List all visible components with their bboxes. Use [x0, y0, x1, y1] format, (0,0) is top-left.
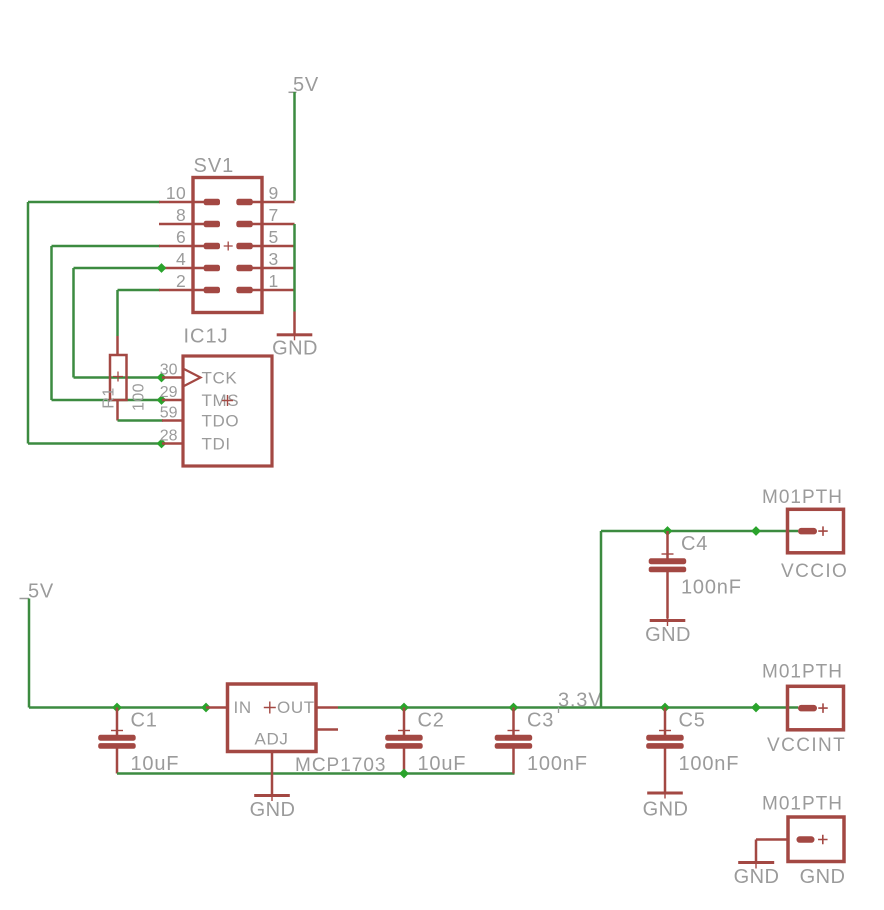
- svg-text:C2: C2: [418, 710, 445, 732]
- svg-text:3.3V: 3.3V: [558, 690, 602, 712]
- svg-text:GND: GND: [645, 624, 691, 646]
- svg-text:9: 9: [269, 183, 279, 203]
- label GND of J3 wire: [734, 866, 780, 888]
- regulator IC2 IN pin: [206, 706, 228, 709]
- capacitor C2 origin cross: [398, 730, 410, 731]
- supply 5V (lower): [20, 581, 55, 603]
- svg-text:100nF: 100nF: [681, 577, 742, 599]
- label C4: [681, 533, 708, 555]
- label M01PTH of J3: [762, 794, 843, 815]
- ic IC1J body: [183, 356, 272, 466]
- resistor R1 origin cross: [113, 372, 123, 382]
- pin 5 of SV1: [236, 227, 294, 249]
- wire J3 pin to GND: [755, 838, 788, 861]
- connector J3 pad: [797, 836, 815, 843]
- connector J3 origin cross: [818, 835, 828, 845]
- svg-text:GND: GND: [250, 799, 296, 821]
- label ADJ: [255, 729, 289, 748]
- pin 29 TMS of IC1J: [160, 384, 239, 410]
- svg-text:2: 2: [176, 271, 186, 291]
- junction at C3: [509, 703, 519, 713]
- svg-text:100nF: 100nF: [679, 753, 740, 775]
- label M01PTH of VCCINT: [762, 662, 843, 683]
- label C4 value: [681, 577, 742, 599]
- svg-text:C5: C5: [679, 710, 706, 732]
- label C5: [679, 710, 706, 732]
- wire 5V to regulator IN: [28, 599, 206, 709]
- label net 3.3V: [558, 690, 602, 714]
- svg-text:28: 28: [160, 428, 178, 445]
- svg-text:VCCINT: VCCINT: [767, 735, 846, 756]
- label VCCIO: [781, 561, 848, 582]
- connector VCCIO M01PTH: [788, 509, 844, 553]
- capacitor C3 plates: [495, 735, 533, 749]
- svg-text:VCCIO: VCCIO: [781, 561, 848, 582]
- ground GND of SV1: [277, 330, 313, 340]
- capacitor C3 top pin: [512, 708, 515, 736]
- svg-text:ADJ: ADJ: [255, 729, 289, 748]
- label GND of regulator ADJ text: [250, 799, 296, 821]
- capacitor C5 bottom pin: [664, 748, 667, 791]
- label C1 value: [131, 753, 180, 775]
- resistor R1 bottom pin: [116, 400, 119, 421]
- svg-text:MCP1703: MCP1703: [295, 755, 387, 776]
- junction at C5: [660, 703, 670, 713]
- pin 2 of SV1: [159, 271, 220, 293]
- svg-text:GND: GND: [272, 337, 318, 359]
- svg-text:R1: R1: [101, 387, 118, 408]
- capacitor C5 plates: [646, 735, 684, 749]
- svg-text:TCK: TCK: [202, 369, 238, 388]
- wire 5V to SV1 pin 9: [293, 92, 296, 201]
- label C2: [418, 710, 445, 732]
- svg-text:59: 59: [160, 405, 178, 422]
- connector VCCINT origin cross: [818, 703, 828, 713]
- svg-text:5: 5: [269, 227, 279, 247]
- svg-text:100: 100: [131, 383, 148, 411]
- capacitor C3 bottom pin: [512, 748, 515, 773]
- svg-text:GND: GND: [643, 799, 689, 821]
- wire 3.3V rail OUT to VCCINT: [338, 706, 798, 709]
- pin 28 TDI of IC1J: [160, 428, 231, 454]
- regulator IC2 OUT pins: [316, 706, 338, 731]
- junction at C2: [399, 703, 409, 713]
- pin 3 of SV1: [236, 249, 294, 271]
- resistor R1 body: [110, 355, 127, 400]
- regulator IC2 ADJ pin: [271, 752, 274, 795]
- label IC1J: [184, 326, 229, 348]
- capacitor C2 plates: [385, 735, 423, 749]
- pin 10 of SV1: [159, 183, 220, 205]
- capacitor C5 origin cross: [659, 730, 671, 731]
- svg-text:GND: GND: [734, 866, 780, 888]
- junction at regulator IN: [201, 703, 211, 713]
- junction at IC1J TCK: [157, 373, 167, 383]
- label GND of SV1 text: [272, 337, 318, 359]
- capacitor C2 bottom pin: [403, 748, 406, 773]
- connector SV1 body: [193, 178, 262, 313]
- supply 5V (top): [289, 74, 320, 96]
- label VCCINT: [767, 735, 846, 756]
- svg-text:C1: C1: [131, 710, 158, 732]
- svg-text:SV1: SV1: [194, 155, 235, 177]
- wire SV1 pin 6 to IC1J TMS: [50, 245, 163, 402]
- svg-text:M01PTH: M01PTH: [762, 794, 843, 815]
- svg-text:10: 10: [166, 183, 186, 203]
- ground GND of C4: [650, 616, 686, 626]
- wire VCCIO rail: [601, 530, 798, 533]
- label M01PTH of VCCIO: [762, 487, 843, 508]
- capacitor C3 origin cross: [508, 730, 520, 731]
- label GND of C4 text: [645, 624, 691, 646]
- svg-text:M01PTH: M01PTH: [762, 487, 843, 508]
- label GND of J3 pad: [800, 866, 846, 888]
- svg-text:29: 29: [160, 384, 178, 401]
- clock mark on TCK pin: [183, 369, 201, 387]
- connector J3 M01PTH (bottom): [788, 817, 844, 862]
- connector VCCIO pad: [798, 528, 817, 535]
- svg-text:5V: 5V: [28, 581, 54, 603]
- label C2 value: [418, 753, 467, 775]
- label IN: [234, 698, 252, 717]
- regulator IC2 body: [228, 684, 317, 752]
- ic IC1J origin cross: [222, 395, 233, 406]
- label OUT: [277, 698, 315, 717]
- wire SV1 pin 4 to IC1J TCK: [72, 267, 163, 379]
- svg-text:C3: C3: [527, 710, 554, 732]
- label R1: [101, 387, 118, 408]
- label GND of C5 text: [643, 799, 689, 821]
- label C1: [131, 710, 158, 732]
- junction at C1: [112, 703, 122, 713]
- capacitor C1 origin cross: [111, 730, 123, 731]
- svg-text:7: 7: [269, 205, 279, 225]
- svg-text:C4: C4: [681, 533, 708, 555]
- pin 59 TDO of IC1J: [160, 405, 239, 431]
- capacitor C2 top pin: [403, 708, 406, 736]
- svg-text:TDO: TDO: [202, 412, 240, 431]
- capacitor C4 origin cross: [662, 553, 674, 554]
- regulator IC2 origin cross: [264, 702, 276, 714]
- connector SV1 origin cross: [224, 242, 233, 251]
- junction at SV1 pin 4: [157, 263, 167, 273]
- wire ground rail C1 C2 C3: [117, 772, 515, 775]
- ground GND of regulator ADJ: [254, 791, 290, 801]
- ground GND of J3: [738, 858, 774, 869]
- label C3: [527, 710, 554, 732]
- svg-text:10uF: 10uF: [131, 753, 180, 775]
- svg-text:M01PTH: M01PTH: [762, 662, 843, 683]
- junction at IC1J TMS: [157, 395, 167, 405]
- svg-text:IC1J: IC1J: [184, 326, 229, 348]
- pin 8 of SV1: [159, 205, 220, 227]
- pin 4 of SV1: [159, 249, 220, 271]
- capacitor C4 top pin: [666, 531, 669, 559]
- svg-text:8: 8: [176, 205, 186, 225]
- connector VCCINT M01PTH: [788, 686, 844, 730]
- label SV1: [194, 155, 235, 177]
- svg-text:TDI: TDI: [202, 435, 231, 454]
- resistor R1 top pin: [116, 336, 119, 355]
- junction at C4: [663, 526, 673, 536]
- connector VCCINT pad: [798, 705, 817, 712]
- svg-text:100nF: 100nF: [527, 753, 588, 775]
- svg-text:6: 6: [176, 227, 186, 247]
- capacitor C4 plates: [649, 558, 687, 572]
- label 100: [131, 383, 148, 411]
- svg-text:3: 3: [269, 249, 279, 269]
- connector VCCIO origin cross: [818, 526, 828, 536]
- svg-text:TMS: TMS: [202, 391, 240, 410]
- capacitor C1 top pin: [116, 708, 119, 736]
- capacitor C4 bottom pin: [666, 572, 669, 619]
- pin 7 of SV1: [236, 205, 294, 227]
- svg-text:OUT: OUT: [277, 698, 315, 717]
- svg-text:IN: IN: [234, 698, 252, 717]
- svg-text:GND: GND: [800, 866, 846, 888]
- ground GND of C5: [647, 789, 683, 799]
- svg-text:10uF: 10uF: [418, 753, 467, 775]
- junction at IC1J TDI: [157, 439, 167, 449]
- wire SV1 pins 7,5,3,1 to GND: [293, 224, 296, 312]
- label C3 value: [527, 753, 588, 775]
- svg-text:30: 30: [160, 362, 178, 379]
- pin 6 of SV1: [159, 227, 220, 249]
- pin wire SV1 GND: [293, 312, 296, 334]
- label MCP1703: [295, 755, 387, 776]
- capacitor C1 plates: [98, 735, 136, 749]
- capacitor C5 top pin: [664, 708, 667, 736]
- svg-text:5V: 5V: [293, 74, 319, 96]
- svg-text:4: 4: [176, 249, 186, 269]
- junction at C2 ground: [399, 769, 409, 779]
- pin 30 TCK of IC1J: [160, 362, 238, 388]
- wire 3.3V branch to VCCIO rail: [600, 531, 603, 708]
- wire SV1 pin 2 to resistor R1: [116, 289, 160, 336]
- pin 1 of SV1: [236, 271, 294, 293]
- pin 9 of SV1: [236, 183, 294, 205]
- svg-text:1: 1: [269, 271, 279, 291]
- wire SV1 pin 10 to IC1J TDI: [27, 201, 163, 445]
- junction at VCCINT wire: [751, 703, 761, 713]
- wire R1 to IC1J TDO: [118, 419, 164, 422]
- capacitor C1 bottom pin: [116, 748, 119, 773]
- label C5 value: [679, 753, 740, 775]
- junction at VCCIO wire: [751, 526, 761, 536]
